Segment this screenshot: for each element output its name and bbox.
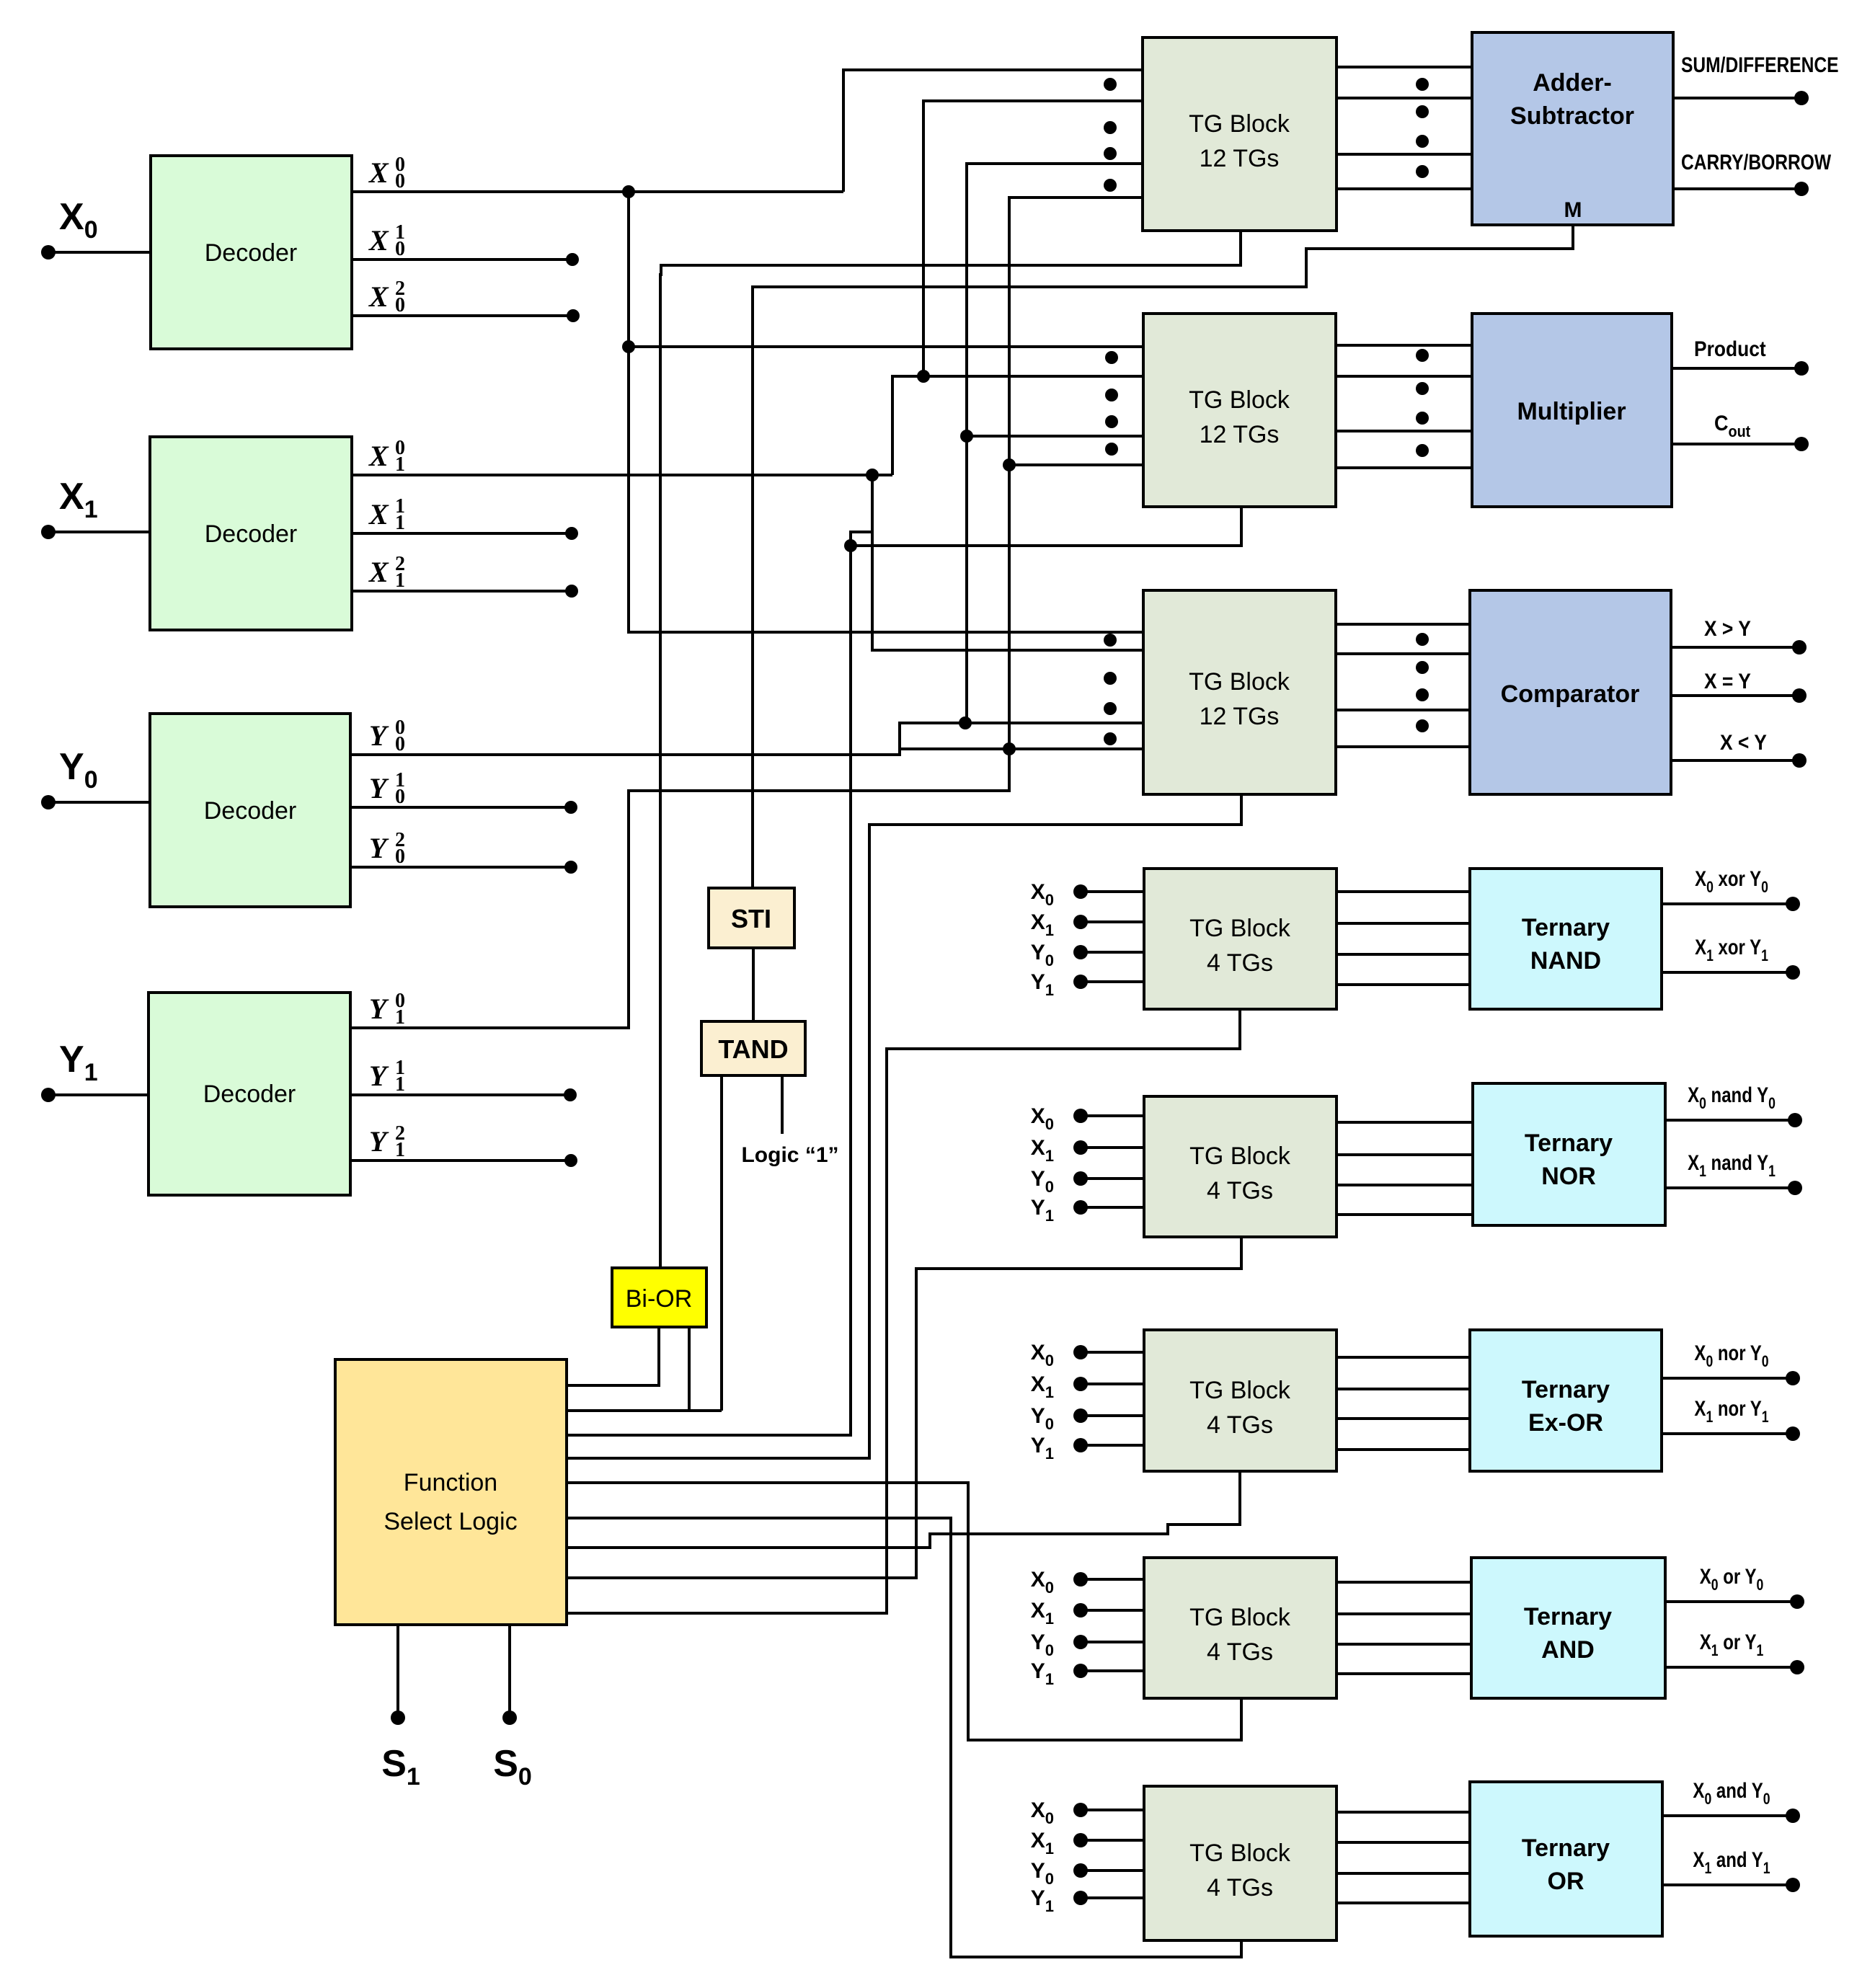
svg-text:SUM/DIFFERENCE: SUM/DIFFERENCE bbox=[1681, 53, 1839, 77]
label Y1^0 bbox=[369, 990, 405, 1029]
wire X1^0 elbow to select tap bbox=[851, 532, 872, 546]
wire AND bus 1 bbox=[1337, 1581, 1471, 1584]
wire FSL pin6 net bbox=[567, 1518, 1241, 1957]
svg-text:Adder-: Adder- bbox=[1533, 69, 1612, 97]
junction X0^0 A bbox=[622, 185, 635, 198]
wire Y0^0 to TG2 in3 bbox=[967, 435, 1143, 438]
label X0 and Y0 bbox=[1693, 1778, 1770, 1808]
svg-text:0: 0 bbox=[395, 294, 405, 316]
wire Y1^2 bbox=[350, 1159, 571, 1162]
node TG1-adder ellipsis dot 3 bbox=[1416, 135, 1429, 148]
wire FSL pin4 net bbox=[567, 794, 1241, 1458]
wire OR output X1andY1 bbox=[1662, 1883, 1793, 1886]
ternary OR block bbox=[1470, 1782, 1662, 1936]
label X1^0 bbox=[368, 437, 405, 476]
svg-text:X < Y: X < Y bbox=[1720, 729, 1767, 754]
svg-text:0: 0 bbox=[395, 170, 405, 192]
input Y0 terminal bbox=[41, 795, 56, 809]
TG block TG8 (4 TGs) bbox=[1144, 1786, 1337, 1940]
label X1 nor Y1 bbox=[1694, 1395, 1768, 1426]
ternary NAND block bbox=[1470, 869, 1662, 1009]
wire TG2-multiplier 1 bbox=[1336, 344, 1472, 347]
node ExOR input Y0 bbox=[1073, 1408, 1088, 1423]
node output X > Y bbox=[1792, 640, 1807, 654]
wire FSL pin5 net bbox=[567, 1483, 1241, 1740]
svg-text:0: 0 bbox=[395, 238, 405, 260]
wire TG2-multiplier 4 bbox=[1336, 466, 1472, 469]
node TG1 input ellipsis bbox=[1104, 121, 1117, 134]
svg-text:Decoder: Decoder bbox=[203, 1080, 296, 1108]
node AND input X0 bbox=[1073, 1572, 1088, 1587]
wire FSL pin3 net bbox=[567, 546, 851, 1435]
node X1^2 end bbox=[565, 585, 578, 598]
TG block TG3 (12 TGs) bbox=[1143, 590, 1336, 794]
wire NOR bus 2 bbox=[1337, 1153, 1473, 1156]
node NOR input Y0 bbox=[1073, 1171, 1088, 1186]
node TG3 input ellipsis bbox=[1104, 702, 1117, 715]
svg-text:TG Block: TG Block bbox=[1189, 386, 1290, 414]
node AND input X1 bbox=[1073, 1603, 1088, 1618]
label X0 nor Y0 bbox=[1694, 1340, 1768, 1370]
node output X < Y bbox=[1792, 753, 1807, 768]
wire NAND bus 3 bbox=[1337, 953, 1470, 956]
svg-text:X: X bbox=[368, 556, 389, 588]
node TG3 input ellipsis bbox=[1104, 634, 1117, 647]
junction X1^0 C bbox=[844, 539, 857, 552]
node TG1-adder ellipsis dot 2 bbox=[1416, 105, 1429, 118]
label X > Y bbox=[1704, 616, 1751, 640]
svg-text:1: 1 bbox=[395, 569, 405, 592]
wire output SUM/DIFFERENCE bbox=[1673, 97, 1801, 99]
node NAND input Y0 bbox=[1073, 945, 1088, 959]
wire output CARRY/BORROW bbox=[1673, 187, 1801, 190]
wire NOR input X0 bbox=[1081, 1114, 1144, 1117]
node Y1^1 end bbox=[564, 1088, 577, 1101]
junction in4 TG2 tap bbox=[1003, 458, 1016, 471]
svg-text:Bi-OR: Bi-OR bbox=[626, 1285, 693, 1313]
wire Y0^0 up to TG1 in3 bbox=[967, 164, 1144, 723]
label X = Y bbox=[1704, 668, 1751, 693]
svg-text:Decoder: Decoder bbox=[205, 239, 298, 267]
wire NOR input Y1 bbox=[1081, 1206, 1144, 1209]
wire TG3-comparator 1 bbox=[1336, 623, 1470, 626]
wire output X > Y bbox=[1671, 646, 1799, 649]
wire OR bus 2 bbox=[1337, 1841, 1470, 1844]
wire NAND bus 2 bbox=[1337, 922, 1470, 925]
svg-text:TG Block: TG Block bbox=[1189, 915, 1291, 942]
input X1 wire bbox=[48, 531, 150, 533]
node ExOR input X0 bbox=[1073, 1345, 1088, 1359]
node TG2-multiplier ellipsis dot 4 bbox=[1416, 444, 1429, 457]
node AND output X1orY1 bbox=[1790, 1660, 1804, 1674]
svg-text:Product: Product bbox=[1694, 336, 1766, 360]
svg-text:1: 1 bbox=[395, 1073, 405, 1096]
wire output Product bbox=[1672, 367, 1801, 370]
node X1^1 end bbox=[565, 527, 578, 540]
Bi-OR block bbox=[612, 1268, 706, 1327]
node OR input Y1 bbox=[1073, 1891, 1088, 1905]
wire M net bbox=[753, 225, 1573, 888]
wire FSL pin9 net bbox=[567, 1009, 1240, 1613]
node ExOR output X0norY0 bbox=[1786, 1371, 1800, 1385]
wire X0^0 from decoder bbox=[352, 190, 843, 193]
node Y1^2 end bbox=[564, 1154, 577, 1167]
svg-text:X: X bbox=[368, 156, 389, 189]
svg-text:Y: Y bbox=[369, 1060, 389, 1092]
wire output X = Y bbox=[1671, 694, 1799, 697]
svg-text:Decoder: Decoder bbox=[204, 797, 297, 825]
node TG1 input ellipsis bbox=[1104, 147, 1117, 160]
input Y1 terminal bbox=[41, 1088, 56, 1102]
wire TG2 select stub bbox=[851, 507, 1241, 546]
svg-text:Y: Y bbox=[369, 1125, 389, 1158]
node TG3 input ellipsis bbox=[1104, 732, 1117, 745]
svg-text:X: X bbox=[368, 498, 389, 531]
svg-text:1: 1 bbox=[395, 1139, 405, 1161]
node NOR input X0 bbox=[1073, 1109, 1088, 1123]
wire OR bus 4 bbox=[1337, 1902, 1470, 1904]
label X0^2 bbox=[368, 278, 405, 316]
svg-text:X: X bbox=[368, 224, 389, 257]
TG block TG2 (12 TGs) bbox=[1143, 314, 1336, 507]
wire X0^0 to TG2 in1 bbox=[629, 345, 1143, 348]
svg-text:Y: Y bbox=[369, 719, 389, 752]
decoder U1 bbox=[151, 156, 352, 349]
svg-text:STI: STI bbox=[731, 904, 771, 933]
wire Bi-OR bottom right bbox=[688, 1327, 691, 1411]
wire TAND output bbox=[720, 1075, 723, 1411]
node TG3-comparator ellipsis dot 3 bbox=[1416, 688, 1429, 701]
node output Product bbox=[1794, 361, 1809, 376]
node NAND input X0 bbox=[1073, 884, 1088, 899]
wire STI to TAND bbox=[752, 948, 755, 1021]
junction Y0^0 A bbox=[959, 716, 972, 729]
svg-text:Ternary: Ternary bbox=[1524, 1603, 1612, 1630]
function select logic block bbox=[335, 1359, 567, 1625]
wire NOR input Y0 bbox=[1081, 1177, 1144, 1180]
wire OR bus 1 bbox=[1337, 1811, 1470, 1814]
wire TG1-adder 1 bbox=[1337, 66, 1472, 68]
wire ExOR bus 3 bbox=[1337, 1417, 1470, 1420]
node OR input X0 bbox=[1073, 1803, 1088, 1817]
TAND block bbox=[701, 1021, 805, 1075]
svg-text:OR: OR bbox=[1548, 1868, 1584, 1895]
node OR output X1andY1 bbox=[1786, 1878, 1800, 1892]
wire OR input X1 bbox=[1081, 1839, 1144, 1842]
wire TG1-adder 3 bbox=[1337, 153, 1472, 156]
wire NAND input X1 bbox=[1081, 920, 1144, 923]
svg-text:TG Block: TG Block bbox=[1189, 1142, 1291, 1170]
wire Y1^0 from decoder bbox=[350, 749, 1009, 1028]
wire NOR output X0nandY0 bbox=[1665, 1119, 1795, 1122]
node TG1-adder ellipsis dot 4 bbox=[1416, 165, 1429, 178]
svg-text:Comparator: Comparator bbox=[1501, 680, 1640, 708]
svg-text:Select Logic: Select Logic bbox=[384, 1508, 517, 1535]
wire S0 stub bbox=[508, 1625, 511, 1718]
wire TG2-multiplier 2 bbox=[1336, 375, 1472, 378]
wire in4 to TG3 bbox=[900, 747, 1143, 750]
svg-text:TG Block: TG Block bbox=[1189, 1604, 1291, 1631]
svg-text:4 TGs: 4 TGs bbox=[1207, 1177, 1273, 1204]
node NAND input X1 bbox=[1073, 915, 1088, 929]
label X1 or Y1 bbox=[1700, 1629, 1763, 1659]
svg-text:TG Block: TG Block bbox=[1189, 668, 1290, 696]
node TG3 input ellipsis bbox=[1104, 672, 1117, 685]
wire TG1-adder 4 bbox=[1337, 187, 1472, 190]
wire ExOR bus 4 bbox=[1337, 1448, 1470, 1451]
node OR input X1 bbox=[1073, 1833, 1088, 1847]
input Y0 wire bbox=[48, 801, 150, 804]
node AND output X0orY0 bbox=[1790, 1594, 1804, 1609]
node NAND output X0xorY0 bbox=[1786, 897, 1800, 911]
wire OR bus 3 bbox=[1337, 1872, 1470, 1875]
wire ExOR input X1 bbox=[1081, 1383, 1144, 1385]
svg-text:Ternary: Ternary bbox=[1522, 1376, 1610, 1403]
node ExOR input Y1 bbox=[1073, 1438, 1088, 1452]
label X0^1 bbox=[368, 221, 405, 260]
svg-text:X: X bbox=[368, 440, 389, 472]
svg-text:Ex-OR: Ex-OR bbox=[1528, 1409, 1603, 1437]
wire ExOR bus 2 bbox=[1337, 1388, 1470, 1390]
svg-text:NAND: NAND bbox=[1530, 947, 1601, 975]
label SUM/DIFFERENCE bbox=[1681, 53, 1839, 77]
wire in4 to TG2 bbox=[1009, 463, 1143, 466]
decoder U4 bbox=[149, 993, 350, 1195]
wire X0^0 bus down bbox=[629, 192, 1143, 632]
wire NOR bus 4 bbox=[1337, 1213, 1473, 1216]
label X1 and Y1 bbox=[1693, 1847, 1770, 1877]
node TG1 input ellipsis bbox=[1104, 78, 1117, 91]
svg-text:Ternary: Ternary bbox=[1522, 1834, 1610, 1862]
wire ExOR input Y0 bbox=[1081, 1414, 1144, 1417]
wire NAND input Y1 bbox=[1081, 980, 1144, 983]
junction X1^0 B bbox=[917, 370, 930, 383]
decoder U3 bbox=[150, 714, 350, 907]
node output CARRY/BORROW bbox=[1794, 182, 1809, 196]
wire X1^0 to TG1 in2 bbox=[923, 101, 1144, 376]
svg-text:M: M bbox=[1564, 198, 1582, 222]
wire X0^2 bbox=[352, 314, 573, 317]
svg-text:Ternary: Ternary bbox=[1525, 1130, 1613, 1157]
node NOR output X0nandY0 bbox=[1788, 1113, 1802, 1127]
wire NAND bus 4 bbox=[1337, 983, 1470, 986]
node S0 terminal bbox=[502, 1710, 517, 1725]
wire X1^1 bbox=[352, 532, 572, 535]
svg-text:Y: Y bbox=[369, 832, 389, 864]
svg-text:X > Y: X > Y bbox=[1704, 616, 1751, 640]
wire ExOR output X0norY0 bbox=[1662, 1377, 1793, 1380]
node NOR output X1nandY1 bbox=[1788, 1181, 1802, 1195]
junction X1^0 A bbox=[866, 469, 879, 482]
node TG3-comparator ellipsis dot 1 bbox=[1416, 633, 1429, 646]
label X1^2 bbox=[368, 553, 405, 592]
wire TG3-comparator 2 bbox=[1336, 652, 1470, 655]
wire AND output X0orY0 bbox=[1665, 1600, 1797, 1603]
wire ExOR input X0 bbox=[1081, 1351, 1144, 1354]
label X0^0 bbox=[368, 154, 405, 192]
svg-text:TG Block: TG Block bbox=[1189, 1377, 1291, 1404]
TG block TG5 (4 TGs) bbox=[1144, 1096, 1337, 1237]
wire NAND bus 1 bbox=[1337, 890, 1470, 893]
wire TG1-adder 2 bbox=[1337, 97, 1472, 99]
node Y0^1 end bbox=[564, 801, 577, 814]
label X < Y bbox=[1720, 729, 1767, 754]
STI block bbox=[709, 888, 794, 948]
node AND input Y0 bbox=[1073, 1635, 1088, 1649]
TG block TG1 (12 TGs) bbox=[1143, 37, 1337, 231]
ternary NOR block bbox=[1473, 1083, 1665, 1225]
label Y1^1 bbox=[369, 1057, 405, 1096]
label Y0^2 bbox=[369, 829, 405, 868]
svg-text:CARRY/BORROW: CARRY/BORROW bbox=[1681, 150, 1831, 174]
input X0 terminal bbox=[41, 245, 56, 259]
wire FSL pin8 net bbox=[567, 1237, 1241, 1578]
comparator block bbox=[1470, 590, 1671, 794]
wire AND bus 3 bbox=[1337, 1643, 1471, 1646]
wire NOR bus 1 bbox=[1337, 1121, 1473, 1124]
label X0 xor Y0 bbox=[1695, 866, 1768, 896]
wire Y0^0 from decoder bbox=[350, 723, 1143, 755]
node ExOR input X1 bbox=[1073, 1377, 1088, 1391]
junction X0^0 B bbox=[622, 340, 635, 353]
multiplier block bbox=[1472, 314, 1672, 507]
input X0 wire bbox=[48, 251, 151, 254]
wire NOR bus 3 bbox=[1337, 1184, 1473, 1186]
svg-text:4 TGs: 4 TGs bbox=[1207, 1874, 1273, 1902]
node TG2 input ellipsis bbox=[1105, 389, 1118, 401]
node ExOR output X1norY1 bbox=[1786, 1426, 1800, 1441]
TG block TG7 (4 TGs) bbox=[1144, 1558, 1337, 1698]
wire OR input Y0 bbox=[1081, 1869, 1144, 1872]
svg-text:1: 1 bbox=[395, 512, 405, 534]
wire X1^0 down to TG3 in2 bbox=[872, 475, 1143, 650]
wire X0^1 bbox=[352, 258, 572, 261]
node NAND output X1xorY1 bbox=[1786, 965, 1800, 980]
wire Bi-OR bottom left bbox=[567, 1327, 659, 1385]
svg-text:12 TGs: 12 TGs bbox=[1200, 703, 1280, 730]
node TG1-adder ellipsis dot 1 bbox=[1416, 78, 1429, 91]
label Product bbox=[1694, 336, 1766, 360]
wire ExOR bus 1 bbox=[1337, 1356, 1470, 1359]
node TG2 input ellipsis bbox=[1105, 351, 1118, 364]
svg-text:TAND: TAND bbox=[718, 1034, 788, 1064]
wire ExOR input Y1 bbox=[1081, 1444, 1144, 1447]
svg-text:NOR: NOR bbox=[1541, 1163, 1596, 1190]
node OR input Y0 bbox=[1073, 1863, 1088, 1878]
adder-subtractor block bbox=[1472, 32, 1673, 225]
node TG1 input ellipsis bbox=[1104, 179, 1117, 192]
svg-text:Logic “1”: Logic “1” bbox=[741, 1143, 838, 1167]
svg-text:0: 0 bbox=[395, 733, 405, 755]
label Y0^1 bbox=[369, 769, 405, 808]
node NOR input Y1 bbox=[1073, 1200, 1088, 1215]
wire NAND input X0 bbox=[1081, 890, 1144, 893]
svg-text:Multiplier: Multiplier bbox=[1517, 398, 1626, 425]
node output COUT bbox=[1794, 437, 1809, 451]
wire X1^0 from decoder bbox=[352, 474, 892, 476]
svg-text:12 TGs: 12 TGs bbox=[1200, 421, 1280, 448]
svg-text:0: 0 bbox=[395, 786, 405, 808]
svg-text:0: 0 bbox=[395, 846, 405, 868]
node X0^2 end bbox=[567, 309, 580, 322]
node OR output X0andY0 bbox=[1786, 1809, 1800, 1823]
wire NOR output X1nandY1 bbox=[1665, 1186, 1795, 1189]
node TG2-multiplier ellipsis dot 3 bbox=[1416, 412, 1429, 425]
TG block TG4 (4 TGs) bbox=[1144, 869, 1337, 1009]
svg-text:Subtractor: Subtractor bbox=[1510, 102, 1634, 130]
node Y0^2 end bbox=[564, 861, 577, 874]
wire X1^0 rise bbox=[892, 376, 1143, 475]
svg-text:1: 1 bbox=[395, 1006, 405, 1029]
svg-text:4 TGs: 4 TGs bbox=[1207, 949, 1273, 977]
label Y0^0 bbox=[369, 716, 405, 755]
node output X = Y bbox=[1792, 688, 1807, 703]
label X1^1 bbox=[368, 495, 405, 534]
wire TG1 select stub bbox=[660, 231, 1241, 1268]
wire NAND output X1xorY1 bbox=[1662, 971, 1793, 974]
wire TG3-comparator 4 bbox=[1336, 745, 1470, 748]
wire AND input Y1 bbox=[1081, 1669, 1144, 1672]
node TG2-multiplier ellipsis dot 2 bbox=[1416, 382, 1429, 395]
wire S1 stub bbox=[396, 1625, 399, 1718]
wire X1^2 bbox=[352, 590, 572, 593]
svg-text:Y: Y bbox=[369, 772, 389, 804]
wire OR input Y1 bbox=[1081, 1896, 1144, 1899]
svg-text:TG Block: TG Block bbox=[1189, 1840, 1291, 1867]
label X1 xor Y1 bbox=[1695, 934, 1768, 964]
svg-text:4 TGs: 4 TGs bbox=[1207, 1638, 1273, 1666]
junction Y1^0 A bbox=[1003, 742, 1016, 755]
node output SUM/DIFFERENCE bbox=[1794, 91, 1809, 105]
label Y1^2 bbox=[369, 1122, 405, 1161]
wire NAND input Y0 bbox=[1081, 951, 1144, 954]
label Cout bbox=[1714, 412, 1750, 441]
input X1 terminal bbox=[41, 525, 56, 539]
label X1 nand Y1 bbox=[1688, 1150, 1776, 1180]
wire AND input X1 bbox=[1081, 1609, 1144, 1612]
node TG3-comparator ellipsis dot 2 bbox=[1416, 661, 1429, 674]
svg-text:X = Y: X = Y bbox=[1704, 668, 1751, 693]
svg-text:TG Block: TG Block bbox=[1189, 110, 1290, 138]
svg-text:AND: AND bbox=[1541, 1636, 1595, 1664]
svg-text:Function: Function bbox=[404, 1469, 497, 1496]
wire Y0^2 bbox=[350, 866, 571, 869]
label X0 nand Y0 bbox=[1688, 1082, 1776, 1112]
input Y1 wire bbox=[48, 1093, 149, 1096]
svg-text:Ternary: Ternary bbox=[1522, 914, 1610, 941]
TG block TG6 (4 TGs) bbox=[1144, 1330, 1337, 1471]
wire AND bus 2 bbox=[1337, 1612, 1471, 1615]
node TG3-comparator ellipsis dot 4 bbox=[1416, 719, 1429, 732]
wire AND input Y0 bbox=[1081, 1641, 1144, 1643]
wire ExOR output X1norY1 bbox=[1662, 1432, 1793, 1435]
wire FSL pin7 net bbox=[567, 1471, 1240, 1548]
wire Y0^1 bbox=[350, 806, 571, 809]
wire AND output X1orY1 bbox=[1665, 1666, 1797, 1669]
ternary AND block bbox=[1471, 1558, 1665, 1698]
wire Y1^1 bbox=[350, 1093, 570, 1096]
node TG2-multiplier ellipsis dot 1 bbox=[1416, 349, 1429, 362]
svg-text:12 TGs: 12 TGs bbox=[1200, 145, 1280, 172]
wire FSL pin2 bbox=[567, 1409, 722, 1412]
svg-text:Y: Y bbox=[369, 993, 389, 1025]
decoder U2 bbox=[150, 437, 352, 630]
wire X0^0 rise to TG1 in1 bbox=[843, 70, 1144, 192]
junction Y0^0 B bbox=[960, 430, 973, 443]
wire NOR input X1 bbox=[1081, 1146, 1144, 1149]
wire TG3-comparator 3 bbox=[1336, 709, 1470, 711]
node X0^1 end bbox=[566, 253, 579, 266]
